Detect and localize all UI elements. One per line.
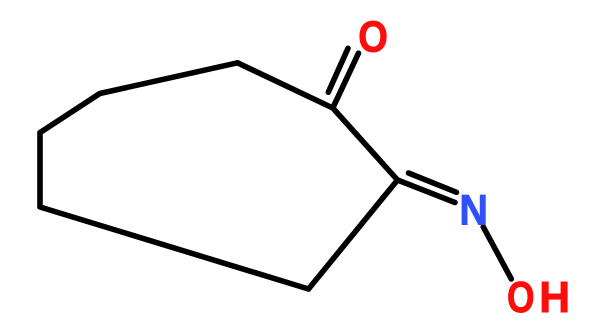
bond chain C1-C7-C6-C5-C4 (left ring edge) [40,63,309,289]
double bond C2=O main line [333,53,359,108]
svg-text:O: O [358,12,388,61]
svg-text:H: H [539,274,570,322]
double bond C3=N inner line [409,173,457,192]
double bond C2=O inner line [328,48,348,92]
bond N-O(H) [483,227,511,279]
double bond C3=N main line [398,180,456,203]
svg-text:O: O [507,274,535,322]
bond C3-C2 [333,108,398,180]
bond C2-C1 [238,63,333,108]
bond C4-C3 [309,180,398,289]
svg-text:N: N [459,186,488,234]
